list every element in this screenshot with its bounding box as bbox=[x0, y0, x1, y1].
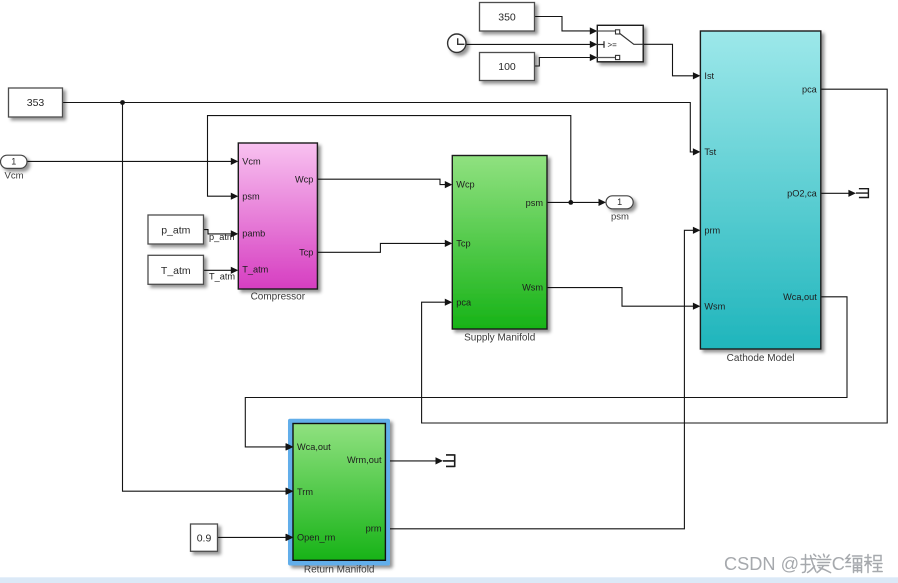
svg-text:psm: psm bbox=[526, 198, 544, 208]
arrowhead Wca,out into Return bbox=[286, 443, 294, 450]
svg-text:Ist: Ist bbox=[704, 71, 714, 81]
label Supply Manifold bbox=[464, 333, 535, 344]
label Return Manifold bbox=[304, 565, 375, 576]
wire psm to outport bbox=[547, 199, 606, 206]
svg-text:Vcm: Vcm bbox=[242, 156, 261, 166]
svg-text:Supply Manifold: Supply Manifold bbox=[464, 333, 535, 344]
wire prm loop bbox=[390, 227, 700, 529]
wire 100 to switch bbox=[534, 54, 598, 66]
switch block bbox=[597, 25, 643, 62]
svg-text:pca: pca bbox=[802, 84, 818, 94]
bottom page strip bbox=[0, 577, 898, 583]
subsystem Supply Manifold bbox=[452, 156, 547, 330]
svg-text:100: 100 bbox=[498, 61, 516, 73]
subsystem Cathode Model bbox=[700, 31, 820, 349]
svg-text:Trm: Trm bbox=[297, 487, 313, 497]
svg-text:0.9: 0.9 bbox=[197, 533, 212, 545]
svg-text:Return Manifold: Return Manifold bbox=[304, 565, 375, 576]
wire 353 branch to Trm bbox=[123, 103, 294, 495]
wire pO2ca to terminator bbox=[821, 190, 856, 197]
svg-text:prm: prm bbox=[704, 225, 720, 235]
svg-text:Open_rm: Open_rm bbox=[297, 533, 336, 543]
svg-text:T_atm: T_atm bbox=[242, 264, 268, 274]
subsystem Return Manifold selected bbox=[288, 419, 390, 566]
wire pca loop bbox=[422, 89, 888, 423]
label wire T_atm bbox=[209, 272, 235, 282]
wire switch to Ist bbox=[643, 44, 700, 79]
svg-text:pamb: pamb bbox=[242, 229, 265, 239]
svg-text:prm: prm bbox=[366, 524, 382, 534]
constant 350 bbox=[480, 3, 535, 32]
svg-text:Wca,out: Wca,out bbox=[783, 292, 817, 302]
svg-text:psm: psm bbox=[242, 191, 260, 201]
svg-text:Wsm: Wsm bbox=[522, 283, 543, 293]
wire 353 to Tst bbox=[63, 103, 701, 156]
clock bbox=[448, 34, 466, 52]
arrowhead Trm into Return bbox=[286, 488, 294, 495]
wire 350 to switch bbox=[535, 17, 598, 35]
wire Tcp bbox=[317, 240, 452, 253]
label Compressor bbox=[251, 292, 306, 303]
svg-text:1: 1 bbox=[617, 197, 622, 207]
svg-text:Wcp: Wcp bbox=[456, 180, 474, 190]
subsystem Compressor bbox=[238, 143, 317, 289]
constant p_atm bbox=[148, 215, 204, 244]
wire Wcp bbox=[317, 179, 452, 188]
arrowhead Open_rm into Return bbox=[286, 534, 294, 541]
svg-text:pO2,ca: pO2,ca bbox=[787, 189, 818, 199]
svg-text:353: 353 bbox=[27, 97, 45, 109]
constant T_atm bbox=[148, 255, 204, 284]
wire psm feedback bbox=[208, 116, 571, 203]
wire T_atm to compressor bbox=[204, 267, 239, 274]
svg-text:Wca,out: Wca,out bbox=[297, 442, 331, 452]
svg-text:p_atm: p_atm bbox=[161, 224, 190, 236]
svg-text:Tst: Tst bbox=[704, 147, 716, 157]
svg-text:Tcp: Tcp bbox=[299, 247, 313, 257]
wire Wsm bbox=[547, 288, 700, 310]
svg-text:psm: psm bbox=[611, 211, 629, 222]
svg-text:Tcp: Tcp bbox=[456, 238, 470, 248]
wire Wrm,out to terminator bbox=[390, 457, 443, 464]
junction 353 branch bbox=[120, 100, 125, 105]
junction psm bbox=[568, 200, 573, 205]
terminator pO2ca bbox=[856, 188, 869, 198]
svg-text:Vcm: Vcm bbox=[5, 170, 24, 181]
svg-text:Compressor: Compressor bbox=[251, 292, 306, 303]
constant 100 bbox=[480, 53, 535, 81]
svg-text:Wsm: Wsm bbox=[704, 301, 725, 311]
svg-text:Cathode Model: Cathode Model bbox=[727, 353, 795, 364]
label Vcm bbox=[5, 170, 24, 181]
constant 353 bbox=[9, 88, 63, 117]
svg-text:CSDN @: CSDN @ bbox=[724, 554, 799, 574]
wire p_atm to pamb bbox=[204, 230, 239, 238]
svg-text:C: C bbox=[832, 554, 845, 574]
terminator Wrm,out bbox=[443, 454, 455, 467]
svg-text:Wcp: Wcp bbox=[295, 174, 313, 184]
svg-text:pca: pca bbox=[456, 297, 472, 307]
constant 0.9 bbox=[191, 524, 218, 551]
outport psm bbox=[606, 196, 633, 209]
svg-text:T_atm: T_atm bbox=[161, 265, 191, 277]
svg-text:>=: >= bbox=[608, 40, 618, 49]
svg-text:T_atm: T_atm bbox=[209, 272, 235, 282]
wire Vcm inport to compressor bbox=[27, 158, 238, 165]
svg-text:1: 1 bbox=[11, 156, 16, 166]
label Cathode Model bbox=[727, 353, 795, 364]
wire Wca,out loop bbox=[245, 297, 847, 451]
svg-text:350: 350 bbox=[498, 11, 516, 23]
watermark CSDN bbox=[724, 554, 882, 574]
wire clock to switch bbox=[466, 41, 597, 48]
svg-text:Wrm,out: Wrm,out bbox=[347, 455, 382, 465]
svg-text:p_atm: p_atm bbox=[209, 232, 235, 242]
wire 0.9 to Open_rm bbox=[218, 534, 293, 541]
label wire p_atm bbox=[209, 232, 235, 242]
label psm bbox=[611, 211, 629, 222]
inport Vcm bbox=[1, 155, 28, 168]
